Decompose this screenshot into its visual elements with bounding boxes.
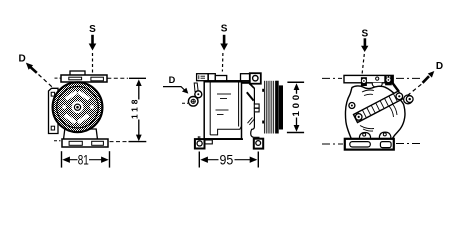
dimension 118 ticks <box>129 77 146 79</box>
dimension 118 line <box>138 85 140 100</box>
svg-text:S: S <box>89 24 96 35</box>
dimension 95 arrows <box>200 157 257 163</box>
svg-text:S: S <box>361 28 368 39</box>
leader dashed S (view1) <box>92 53 94 75</box>
arrow D (view3) <box>428 71 435 78</box>
body bottom step <box>210 126 241 135</box>
top step <box>215 76 226 81</box>
belt rim (black) <box>279 85 283 129</box>
body outline <box>345 86 405 139</box>
bracket middle tab <box>372 83 382 88</box>
clutch gap marks <box>262 89 264 92</box>
body internal ticks <box>217 93 231 95</box>
clutch housing top bar <box>242 81 250 84</box>
leader D (view2) <box>163 87 186 91</box>
coil connector <box>254 104 259 108</box>
top bracket bar <box>344 75 393 82</box>
mounting band <box>354 91 403 123</box>
dimension 118 arrows <box>136 79 142 141</box>
pulley disc <box>53 82 103 132</box>
svg-text:D: D <box>436 61 443 72</box>
housing weld mark top <box>247 92 254 100</box>
compressor body <box>204 81 241 139</box>
svg-text:D: D <box>169 75 176 85</box>
bracket strut <box>393 83 399 92</box>
leader dashed D (view1) <box>39 75 57 92</box>
body bottom spacer <box>204 140 212 144</box>
suction fitting small port <box>195 91 202 98</box>
arrow D (view1) <box>26 63 33 70</box>
top bracket tab <box>70 71 85 75</box>
base plate <box>345 139 394 150</box>
pulley inner rim <box>57 86 99 128</box>
suction fitting stem <box>194 83 198 92</box>
centerline dash at fitting <box>182 102 188 104</box>
svg-text:81: 81 <box>78 153 89 169</box>
bottom bracket slots <box>69 141 82 145</box>
svg-text:118: 118 <box>130 99 140 119</box>
svg-text:95: 95 <box>220 153 234 168</box>
dimension 95 line <box>207 159 219 161</box>
band bolt upper <box>396 93 403 100</box>
dimension 81 arrows <box>62 157 108 163</box>
band bolt lower <box>355 114 362 121</box>
top bracket bar <box>61 75 107 82</box>
housing weld mark bottom <box>248 117 253 123</box>
leader dashed S (view3) <box>362 54 364 75</box>
bottom bracket <box>62 139 108 147</box>
dimension 81 ticks <box>61 151 63 167</box>
pulley grooves <box>264 81 275 134</box>
bracket right end block <box>384 76 393 83</box>
dimension 100 ticks <box>287 81 304 83</box>
top lug 3 <box>241 74 250 81</box>
leader dashed D (view3) <box>407 84 422 96</box>
base arches <box>360 133 371 140</box>
clutch plate (black) <box>276 81 279 134</box>
arrow S (view3) <box>361 38 368 52</box>
bottom neck <box>64 129 98 140</box>
dimension 95 ticks <box>198 152 200 168</box>
arrow S (view2) <box>220 35 228 51</box>
pulley hub <box>72 101 84 113</box>
feet <box>197 136 199 139</box>
dimension 118 extension dashes <box>55 77 61 79</box>
svg-text:D: D <box>18 53 25 64</box>
top boss with hole <box>250 73 261 84</box>
leader dashed S (view2) <box>221 53 224 72</box>
bolt square right <box>385 76 392 85</box>
centerline dashes <box>322 77 342 79</box>
svg-text:S: S <box>221 24 228 35</box>
clutch slots <box>63 90 94 124</box>
clutch housing bottom step <box>251 113 260 138</box>
svg-text:100: 100 <box>291 95 302 117</box>
arrow D (view2) <box>182 88 188 94</box>
dimension 81 line <box>69 159 78 161</box>
bolt square left <box>361 77 367 86</box>
body internal vertical lines <box>209 81 211 135</box>
dimension 100 line <box>296 89 298 94</box>
body side bolt <box>349 103 355 109</box>
body shading arcs <box>360 90 397 131</box>
rear boss bolt <box>406 96 413 103</box>
rear boss bump <box>404 95 413 104</box>
dimension 100 arrows <box>294 83 300 132</box>
arrow S (view1) <box>89 35 97 51</box>
top lug 2 <box>208 74 215 81</box>
left mounting plate <box>49 88 59 133</box>
top bracket slots <box>69 77 82 80</box>
top lug with marks <box>197 74 208 81</box>
discharge fitting port <box>188 97 198 107</box>
band hatching <box>358 94 397 120</box>
